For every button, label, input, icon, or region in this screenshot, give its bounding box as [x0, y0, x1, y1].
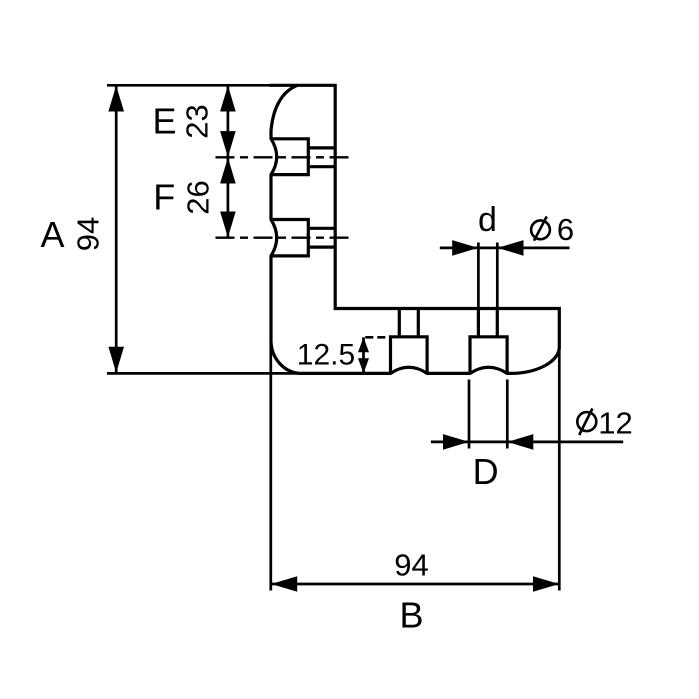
dimension E arrow top — [220, 86, 236, 112]
extension line d left (pin P4 shank extended) — [477, 243, 480, 309]
dimension B shaft — [271, 583, 559, 586]
svg-text:94: 94 — [71, 217, 106, 251]
extension line bottom (dimension A) — [107, 372, 302, 375]
dashed line for 12.5 — [365, 336, 390, 339]
extension line diameter-12 left — [468, 380, 471, 449]
diameter symbol of 6 — [531, 220, 550, 239]
dimension B arrow right — [533, 576, 559, 592]
dimension d arrow left — [452, 240, 478, 256]
dimension F arrow bottom — [220, 212, 236, 238]
dimension d arrow right — [498, 240, 524, 256]
dimension D arrow right — [507, 434, 533, 450]
svg-text:26: 26 — [181, 180, 216, 214]
dimension 12.5 arrow bottom — [358, 358, 369, 373]
dimension A shaft — [115, 85, 118, 373]
dimension A arrow bottom — [108, 347, 124, 373]
extension line top (dimension A) — [107, 84, 271, 87]
svg-text:12: 12 — [598, 406, 632, 441]
extension line B left — [269, 341, 272, 591]
pin P4 on bottom arm: shank lines — [478, 309, 497, 337]
svg-text:23: 23 — [180, 104, 215, 138]
dimension E/F shaft — [227, 85, 230, 237]
extension line d right — [496, 243, 499, 309]
dimension D arrow left — [443, 434, 469, 450]
pin P2 centerline — [216, 236, 351, 238]
dimension A arrow top — [108, 86, 124, 112]
svg-text:94: 94 — [394, 548, 428, 583]
svg-text:A: A — [40, 214, 64, 255]
part outline: bottom edge with break humps, fillet, left edge with break waves, top curve — [271, 85, 511, 373]
part outline: right side of L (top edge, right edge, arm top edge, right end, corner arc) — [269, 85, 559, 373]
svg-text:B: B — [399, 595, 423, 636]
dimension F arrow top — [220, 158, 236, 184]
dimension D/diameter-12 line — [431, 441, 623, 444]
dimension d/diameter-6 line — [440, 247, 570, 250]
dimension B arrow left — [271, 576, 297, 592]
pin P3 on bottom arm: shank lines — [399, 309, 418, 337]
diameter symbol of 12 — [577, 412, 596, 431]
extension line diameter-12 right — [506, 380, 509, 449]
svg-text:F: F — [153, 177, 175, 218]
dimension E arrow bottom — [220, 131, 236, 157]
dimension 12.5 arrow top — [358, 337, 369, 352]
svg-text:d: d — [478, 201, 497, 239]
pin P4 body rectangle edges — [470, 337, 507, 374]
dimension 12.5 shaft — [362, 337, 365, 373]
pin P2 shank lines — [308, 228, 335, 247]
svg-text:E: E — [152, 101, 176, 142]
svg-text:D: D — [473, 451, 499, 492]
extension line B right — [558, 347, 561, 591]
pin P2 on left arm: body rectangle edges — [271, 220, 308, 256]
pin P3 body rectangle edges — [391, 337, 428, 374]
pin P1 shank lines — [308, 148, 335, 167]
svg-text:12.5: 12.5 — [297, 339, 355, 372]
svg-text:6: 6 — [557, 212, 574, 247]
pin P1 centerline — [216, 156, 351, 158]
pin P1 on left arm: body rectangle edges — [271, 139, 308, 175]
